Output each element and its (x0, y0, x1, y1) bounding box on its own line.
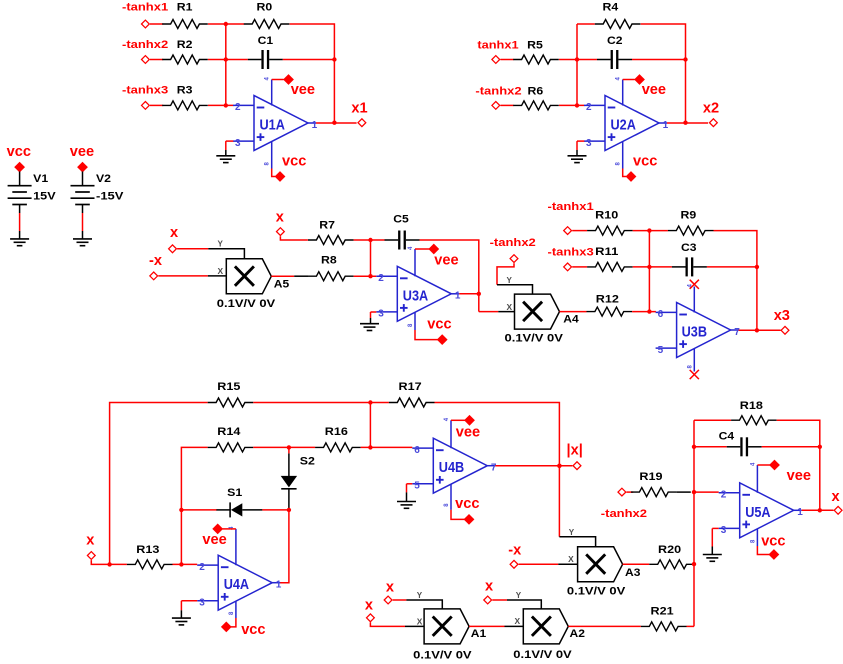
svg-text:4: 4 (408, 246, 414, 250)
svg-text:x: x (832, 489, 841, 505)
pin label Y (516, 591, 522, 600)
svg-text:R13: R13 (136, 544, 159, 556)
port x (832, 489, 843, 514)
ground (172, 618, 191, 625)
no-connect (690, 370, 699, 379)
wire to pin 3 (577, 140, 584, 142)
svg-text:5: 5 (414, 481, 420, 492)
wire (711, 547, 713, 555)
junction (332, 57, 336, 61)
op-amp U2A (584, 77, 669, 169)
port -tanhx2 (475, 85, 521, 109)
svg-text:6: 6 (414, 445, 420, 456)
resistor R15 (208, 381, 254, 407)
svg-text:A1: A1 (471, 628, 486, 640)
svg-text:3: 3 (721, 525, 727, 536)
svg-text:vcc: vcc (282, 153, 306, 169)
vee wire (272, 79, 284, 81)
node wire (648, 231, 650, 312)
svg-text:Y: Y (507, 276, 513, 285)
wire (208, 59, 248, 61)
pin label X (218, 267, 224, 276)
resistor R10 (587, 210, 633, 235)
svg-text:1: 1 (455, 291, 461, 302)
port -x (149, 253, 163, 280)
resistor R2 (162, 39, 208, 64)
svg-text:-15V: -15V (96, 191, 124, 203)
svg-text:R17: R17 (399, 381, 422, 393)
svg-text:3: 3 (586, 138, 592, 149)
resistor R9 (668, 210, 714, 235)
wire (577, 59, 597, 61)
wire to pin 3 (371, 311, 377, 313)
svg-text:-tanhx2: -tanhx2 (475, 85, 521, 97)
junction (575, 103, 579, 107)
capacitor C5 (385, 214, 420, 250)
node wire (225, 24, 227, 105)
junction (368, 445, 372, 449)
resistor R12 (587, 293, 633, 316)
junction (683, 57, 687, 61)
A3 output wire (623, 563, 650, 565)
svg-text:8: 8 (750, 539, 756, 543)
junction (224, 103, 228, 107)
svg-text:2: 2 (235, 102, 241, 113)
svg-text:0.1V/V 0V: 0.1V/V 0V (413, 650, 472, 662)
svg-text:vcc: vcc (633, 153, 657, 169)
port -x (508, 542, 522, 568)
svg-text:4: 4 (444, 417, 450, 421)
junction (224, 22, 228, 26)
svg-text:C4: C4 (719, 431, 735, 443)
pin label X (568, 555, 574, 564)
wire (500, 104, 513, 106)
node wire (369, 403, 371, 448)
svg-text:R14: R14 (217, 426, 241, 438)
power symbol vcc (427, 317, 451, 345)
svg-text:X: X (507, 303, 513, 312)
node wire (693, 420, 695, 626)
wire (519, 563, 559, 565)
svg-text:U2A: U2A (611, 118, 636, 134)
resistor R16 (315, 426, 361, 452)
ground wire (370, 312, 372, 318)
junction (557, 464, 561, 468)
svg-text:4: 4 (265, 77, 271, 81)
ground wire (711, 528, 713, 546)
pin label Y (417, 591, 423, 600)
node wire (576, 24, 578, 105)
wire (577, 23, 595, 25)
port -tanhx2 (122, 39, 168, 63)
wire to A4 (479, 311, 499, 313)
wire (288, 447, 290, 453)
voltage source V2 (71, 173, 125, 204)
svg-text:x3: x3 (774, 308, 790, 324)
svg-text:1: 1 (663, 120, 669, 131)
svg-text:6: 6 (658, 309, 664, 320)
power symbol vee (70, 144, 94, 172)
wire (405, 625, 424, 627)
ground (703, 555, 722, 562)
svg-text:V1: V1 (33, 173, 48, 185)
loop wire R14 (181, 447, 207, 564)
power symbol vee (428, 244, 458, 269)
svg-text:S1: S1 (227, 487, 242, 499)
wire (694, 446, 727, 448)
svg-text:-tanhx2: -tanhx2 (490, 237, 536, 249)
wire (558, 563, 577, 565)
svg-text:0.1V/V 0V: 0.1V/V 0V (513, 649, 572, 661)
power symbol vcc (626, 153, 658, 182)
capacitor C1 (248, 35, 283, 69)
junction (647, 309, 651, 313)
wire (19, 205, 21, 214)
svg-text:R20: R20 (658, 544, 681, 556)
svg-text:V2: V2 (96, 173, 111, 185)
resistor R21 (641, 605, 687, 631)
svg-text:vee: vee (202, 532, 226, 548)
svg-text:2: 2 (586, 102, 592, 113)
wire (208, 104, 233, 106)
svg-text:0.1V/V 0V: 0.1V/V 0V (217, 298, 276, 310)
wire (420, 240, 479, 312)
svg-text:R11: R11 (595, 246, 618, 258)
wire (572, 230, 587, 232)
svg-text:U4A: U4A (224, 577, 249, 593)
ground (360, 324, 379, 331)
svg-text:vee: vee (456, 425, 480, 441)
wire (641, 24, 686, 123)
svg-text:tanhx1: tanhx1 (477, 40, 518, 52)
svg-text:x: x (170, 225, 179, 241)
voltage source V1 (8, 173, 57, 204)
pin label Y (218, 240, 224, 249)
power symbol vcc (221, 622, 266, 639)
A2 output wire (568, 625, 641, 627)
svg-text:vcc: vcc (761, 534, 785, 550)
resistor R20 (649, 544, 695, 569)
port x2 (703, 100, 719, 126)
multiplier A3 (567, 547, 641, 598)
port -tanhx2 (490, 237, 536, 262)
svg-text:R2: R2 (177, 39, 193, 51)
svg-text:R19: R19 (639, 471, 662, 483)
op-amp U4A (197, 526, 282, 618)
svg-text:8: 8 (444, 503, 450, 507)
svg-text:U3B: U3B (682, 325, 707, 341)
pin label X (507, 303, 513, 312)
svg-text:A2: A2 (570, 628, 585, 640)
port x (384, 580, 395, 604)
wire (576, 150, 578, 156)
multiplier A2 (513, 609, 585, 661)
wire (354, 275, 377, 277)
ground (216, 156, 235, 163)
wire (354, 239, 385, 241)
svg-text:R1: R1 (177, 2, 193, 14)
node wire (370, 240, 372, 276)
svg-text:vee: vee (70, 144, 94, 160)
wire (649, 266, 672, 268)
junction (368, 274, 372, 278)
wire (497, 263, 514, 285)
wire (559, 537, 595, 547)
svg-text:U4B: U4B (439, 460, 464, 476)
ground wire (576, 141, 578, 150)
svg-text:3: 3 (378, 309, 384, 320)
svg-text:2: 2 (199, 562, 205, 573)
svg-text:1: 1 (312, 120, 318, 131)
wire (559, 104, 584, 106)
svg-text:8: 8 (408, 323, 414, 327)
resistor R3 (162, 85, 208, 110)
svg-text:R15: R15 (217, 381, 240, 393)
wire (406, 600, 442, 609)
svg-text:8: 8 (229, 611, 235, 615)
svg-text:R21: R21 (651, 605, 674, 617)
port -tanhx3 (548, 247, 594, 271)
junction (287, 508, 291, 512)
svg-text:Y: Y (516, 591, 522, 600)
wire (173, 563, 198, 565)
svg-text:|x|: |x| (567, 443, 583, 459)
svg-text:C2: C2 (607, 35, 623, 47)
wire (262, 509, 289, 511)
wire (677, 491, 691, 493)
multiplier A5 (217, 259, 289, 310)
svg-text:15V: 15V (33, 191, 56, 203)
svg-text:X: X (568, 555, 574, 564)
vcc wire (272, 169, 276, 177)
port tanhx1 (477, 40, 518, 64)
svg-text:3: 3 (235, 138, 241, 149)
vee wire (451, 419, 465, 421)
junction (692, 490, 696, 494)
vcc wire (451, 510, 465, 520)
svg-text:-tanhx2: -tanhx2 (601, 508, 647, 520)
power symbol vcc (455, 496, 479, 525)
wire (283, 59, 335, 61)
resistor R1 (162, 2, 208, 29)
pin label X (417, 617, 423, 626)
power symbol vee (634, 74, 666, 98)
junction (692, 445, 696, 449)
svg-text:7: 7 (734, 327, 740, 338)
vee wire (757, 464, 770, 466)
vcc wire (757, 546, 769, 555)
op-amp U4B (412, 417, 497, 510)
svg-text:R3: R3 (177, 85, 193, 97)
svg-text:R16: R16 (325, 426, 348, 438)
svg-text:A5: A5 (274, 279, 289, 291)
wire (180, 610, 182, 618)
wire (497, 285, 533, 294)
resistor R17 (389, 381, 435, 407)
resistor R0 (244, 2, 290, 29)
wire (361, 446, 413, 448)
wire (505, 625, 524, 627)
svg-text:vcc: vcc (427, 317, 451, 333)
svg-text:U3A: U3A (403, 288, 428, 304)
ground (73, 239, 92, 246)
svg-text:1: 1 (276, 580, 282, 591)
vcc wire (415, 330, 438, 340)
junction (755, 328, 759, 332)
svg-text:3: 3 (199, 598, 205, 609)
svg-text:R6: R6 (528, 85, 544, 97)
svg-text:R7: R7 (319, 220, 335, 232)
pin label X (515, 617, 521, 626)
vcc wire (623, 169, 627, 177)
wire to pin 5 gnd (407, 483, 413, 485)
junction (683, 121, 687, 125)
svg-text:0.1V/V 0V: 0.1V/V 0V (567, 586, 626, 598)
svg-text:x2: x2 (703, 100, 719, 116)
svg-text:4: 4 (750, 462, 756, 466)
pin label Y (507, 276, 513, 285)
svg-text:x: x (86, 532, 95, 548)
svg-text:vee: vee (434, 253, 458, 269)
svg-text:U1A: U1A (260, 118, 285, 134)
power symbol vcc (275, 153, 307, 182)
op-amp U3B (656, 284, 741, 372)
wire (627, 491, 634, 493)
resistor R14 (208, 426, 254, 452)
svg-text:-x: -x (149, 253, 163, 269)
wire to pin 3 (712, 527, 718, 529)
svg-text:R4: R4 (603, 2, 620, 14)
wire (707, 266, 757, 268)
capacitor C3 (672, 242, 707, 276)
resistor R6 (513, 85, 559, 110)
port x (365, 597, 374, 621)
svg-text:8: 8 (616, 162, 622, 166)
svg-text:U5A: U5A (745, 505, 770, 521)
junction (818, 445, 822, 449)
port -tanhx3 (122, 85, 168, 110)
wire (82, 213, 84, 231)
port -tanhx1 (548, 201, 594, 235)
svg-text:vcc: vcc (241, 622, 265, 638)
vee wire (415, 248, 429, 250)
output wire (667, 122, 708, 124)
port x (169, 225, 179, 253)
wire (82, 172, 84, 186)
svg-text:-tanhx1: -tanhx1 (122, 2, 168, 14)
svg-text:Y: Y (569, 528, 575, 537)
vee wire (623, 79, 635, 81)
resistor R18 (731, 400, 777, 425)
svg-text:R8: R8 (321, 255, 337, 267)
wire (762, 446, 820, 448)
svg-text:Y: Y (218, 240, 224, 249)
wire (559, 59, 577, 61)
junction (107, 562, 111, 566)
junction (332, 121, 336, 125)
resistor R13 (127, 544, 173, 569)
svg-text:R10: R10 (595, 210, 618, 222)
diode S2 (281, 453, 315, 509)
wire (370, 622, 405, 626)
svg-text:x: x (365, 597, 374, 613)
A1 output wire (469, 625, 504, 627)
wire (158, 275, 208, 277)
op-amp U3A (376, 246, 461, 330)
wire to pin 3 (181, 600, 197, 602)
output wire (802, 509, 834, 511)
port x (86, 532, 95, 559)
svg-text:x: x (485, 578, 494, 594)
capacitor C4 (719, 431, 762, 457)
ground (568, 156, 587, 163)
power symbol vee (456, 415, 480, 441)
wire (82, 205, 84, 214)
svg-text:2: 2 (721, 489, 727, 500)
svg-text:Y: Y (417, 591, 423, 600)
svg-text:-tanhx3: -tanhx3 (548, 247, 594, 259)
resistor R11 (587, 246, 633, 271)
A5 output wire (271, 275, 294, 277)
svg-text:0.1V/V 0V: 0.1V/V 0V (505, 333, 564, 345)
wire to pin 2 (694, 491, 719, 493)
svg-text:vee: vee (787, 468, 811, 484)
port x1 (351, 100, 367, 126)
svg-text:x: x (276, 209, 285, 225)
wire (19, 213, 21, 231)
svg-text:vee: vee (642, 82, 666, 98)
output wire (495, 465, 572, 467)
wire (294, 275, 308, 277)
port x (484, 578, 494, 604)
svg-text:vee: vee (291, 82, 315, 98)
junction (179, 562, 183, 566)
ground (10, 239, 29, 246)
wire (91, 560, 127, 564)
junction (755, 265, 759, 269)
wire (290, 24, 335, 123)
wire (406, 492, 408, 501)
wire (150, 59, 163, 61)
wire (150, 104, 163, 106)
svg-text:-x: -x (508, 542, 522, 558)
ground (397, 502, 416, 509)
pin label Y (569, 528, 575, 537)
wire (19, 231, 21, 239)
wire (694, 419, 731, 421)
svg-text:8: 8 (687, 365, 693, 369)
svg-text:-tanhx1: -tanhx1 (548, 201, 594, 213)
junction (692, 562, 696, 566)
op-amp U5A (719, 462, 804, 546)
diode S1 (216, 487, 262, 517)
resistor R8 (308, 255, 354, 281)
wire (82, 231, 84, 239)
svg-text:C5: C5 (393, 214, 409, 226)
output wire (316, 122, 357, 124)
svg-text:2: 2 (378, 273, 384, 284)
svg-text:-tanhx2: -tanhx2 (122, 39, 168, 51)
wire (633, 230, 650, 232)
port |x| (567, 443, 583, 470)
wire (208, 275, 226, 277)
no-connect (690, 280, 699, 289)
power symbol vcc (761, 534, 785, 560)
wire (714, 231, 757, 331)
svg-text:x: x (386, 580, 395, 596)
svg-text:C3: C3 (681, 242, 697, 254)
resistor R7 (308, 220, 354, 245)
